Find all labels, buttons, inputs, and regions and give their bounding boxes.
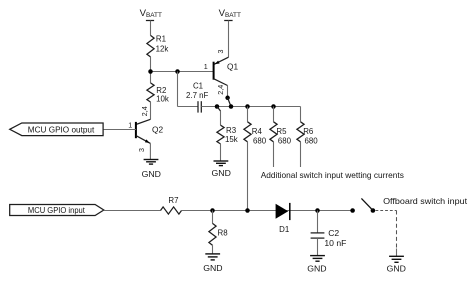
svg-text:2,4: 2,4 [140,106,149,116]
svg-text:1: 1 [204,62,208,71]
svg-text:3: 3 [216,50,225,54]
svg-text:R7: R7 [168,196,178,205]
svg-text:GND: GND [203,263,222,273]
svg-text:MCU GPIO output: MCU GPIO output [28,125,95,135]
svg-text:R8: R8 [218,228,229,237]
svg-text:D1: D1 [279,225,289,234]
svg-text:GND: GND [212,168,231,178]
svg-text:GND: GND [142,169,161,179]
svg-text:C2: C2 [328,228,339,238]
svg-text:Additional switch input wettin: Additional switch input wetting currents [261,170,404,180]
svg-text:12k: 12k [156,45,169,54]
svg-text:3: 3 [137,148,146,152]
svg-text:R4: R4 [252,127,263,136]
svg-text:R6: R6 [303,127,314,136]
svg-text:C1: C1 [193,82,203,91]
svg-text:10 nF: 10 nF [324,238,346,248]
svg-text:R1: R1 [156,35,166,44]
svg-text:R3: R3 [226,126,237,135]
svg-text:2,4: 2,4 [216,85,225,95]
svg-text:15k: 15k [225,135,238,144]
svg-text:Q1: Q1 [227,62,238,72]
svg-text:10k: 10k [156,95,169,104]
svg-text:680: 680 [253,137,267,146]
svg-text:680: 680 [278,137,292,146]
svg-text:680: 680 [305,137,319,146]
svg-text:2.7 nF: 2.7 nF [186,91,209,100]
svg-text:1: 1 [128,121,132,130]
svg-text:MCU GPIO input: MCU GPIO input [28,205,86,215]
svg-text:R2: R2 [156,86,166,95]
svg-text:GND: GND [307,263,326,273]
svg-text:R5: R5 [276,127,287,136]
svg-text:GND: GND [387,263,406,273]
svg-text:Offboard switch input: Offboard switch input [383,196,468,206]
svg-text:Q2: Q2 [152,124,163,134]
